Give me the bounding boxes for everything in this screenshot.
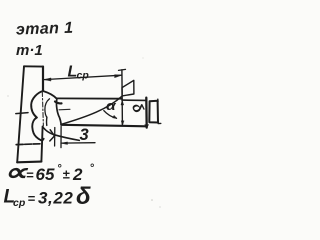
faint scan speckles (7, 58, 160, 208)
bell mouth rim junction blob (55, 102, 62, 104)
bell lower lobe left arc (32, 118, 41, 141)
arrowhead left of Lср (44, 78, 51, 81)
svg-text:°: ° (57, 163, 62, 175)
wire: plate bottom edge (17, 161, 41, 164)
seam line of lower die piece (16, 143, 40, 146)
svg-text:m·1: m·1 (16, 42, 43, 59)
dimension 3: arrowhead К pointing right (50, 130, 55, 141)
bell inner wall curve (45, 99, 50, 117)
svg-text:ср: ср (77, 70, 90, 82)
svg-text:3,22: 3,22 (38, 189, 74, 208)
svg-text:3: 3 (80, 126, 89, 144)
bell upper lobe left arc (31, 91, 43, 118)
dimension 3: extension line B (60, 127, 62, 148)
rod end bottom flare (145, 125, 149, 128)
svg-text:=: = (28, 191, 36, 206)
dimension 3: extension line A (54, 128, 56, 147)
svg-text:±: ± (63, 167, 71, 182)
end cap corner ticks (158, 99, 161, 123)
extension line at x=122 (121, 70, 124, 126)
pennant triangle (122, 80, 134, 96)
rod bottom line (61, 125, 146, 127)
svg-text:α: α (106, 99, 117, 113)
delta arrow up (121, 100, 124, 105)
arrowhead right of Lср (115, 75, 122, 78)
svg-text:эman 1: эman 1 (16, 20, 74, 39)
rod top line (57, 97, 122, 99)
delta arrow down (121, 121, 124, 126)
bell lower lobe bottom curl (41, 139, 44, 141)
dimension 3: dimension line (61, 142, 95, 144)
label: этап 1 (16, 20, 74, 39)
dimension Lср line (44, 75, 122, 79)
rod top line right of extension (122, 99, 146, 101)
svg-text:2: 2 (72, 165, 83, 184)
axis dash inside rod (59, 108, 70, 111)
rod end thick line (145, 98, 148, 128)
flare outer sweep curve (43, 127, 80, 141)
svg-text:δ: δ (76, 183, 91, 210)
bell lower inner wall (46, 117, 48, 125)
wire: plate right edge lower (41, 127, 42, 162)
bell mouth rim curve (56, 99, 61, 125)
svg-text:δ: δ (128, 101, 146, 116)
tick at top of extension line (119, 69, 126, 70)
svg-text:°: ° (90, 163, 95, 175)
formula line 1: alpha = 65 +-2 (4, 159, 95, 210)
seam tick at plate left edge (16, 113, 28, 114)
bell upper lobe right arc (43, 91, 57, 98)
end cap rectangle (149, 101, 158, 123)
angle alpha arc (104, 111, 117, 119)
wire: plate right edge upper (42, 67, 44, 91)
wire: plate left edge (17, 66, 24, 162)
arrowhead of alpha arc (113, 115, 117, 118)
plate (die block) outline (24, 65, 43, 67)
dimension 3: arrowhead left (61, 142, 67, 145)
svg-text:ср: ср (13, 197, 26, 209)
centerline through bell (dash-dot) (42, 92, 43, 127)
cone diagonal line (61, 96, 122, 124)
svg-text:=: = (26, 168, 34, 183)
svg-text:∝: ∝ (4, 159, 29, 186)
svg-text:65: 65 (36, 165, 55, 184)
